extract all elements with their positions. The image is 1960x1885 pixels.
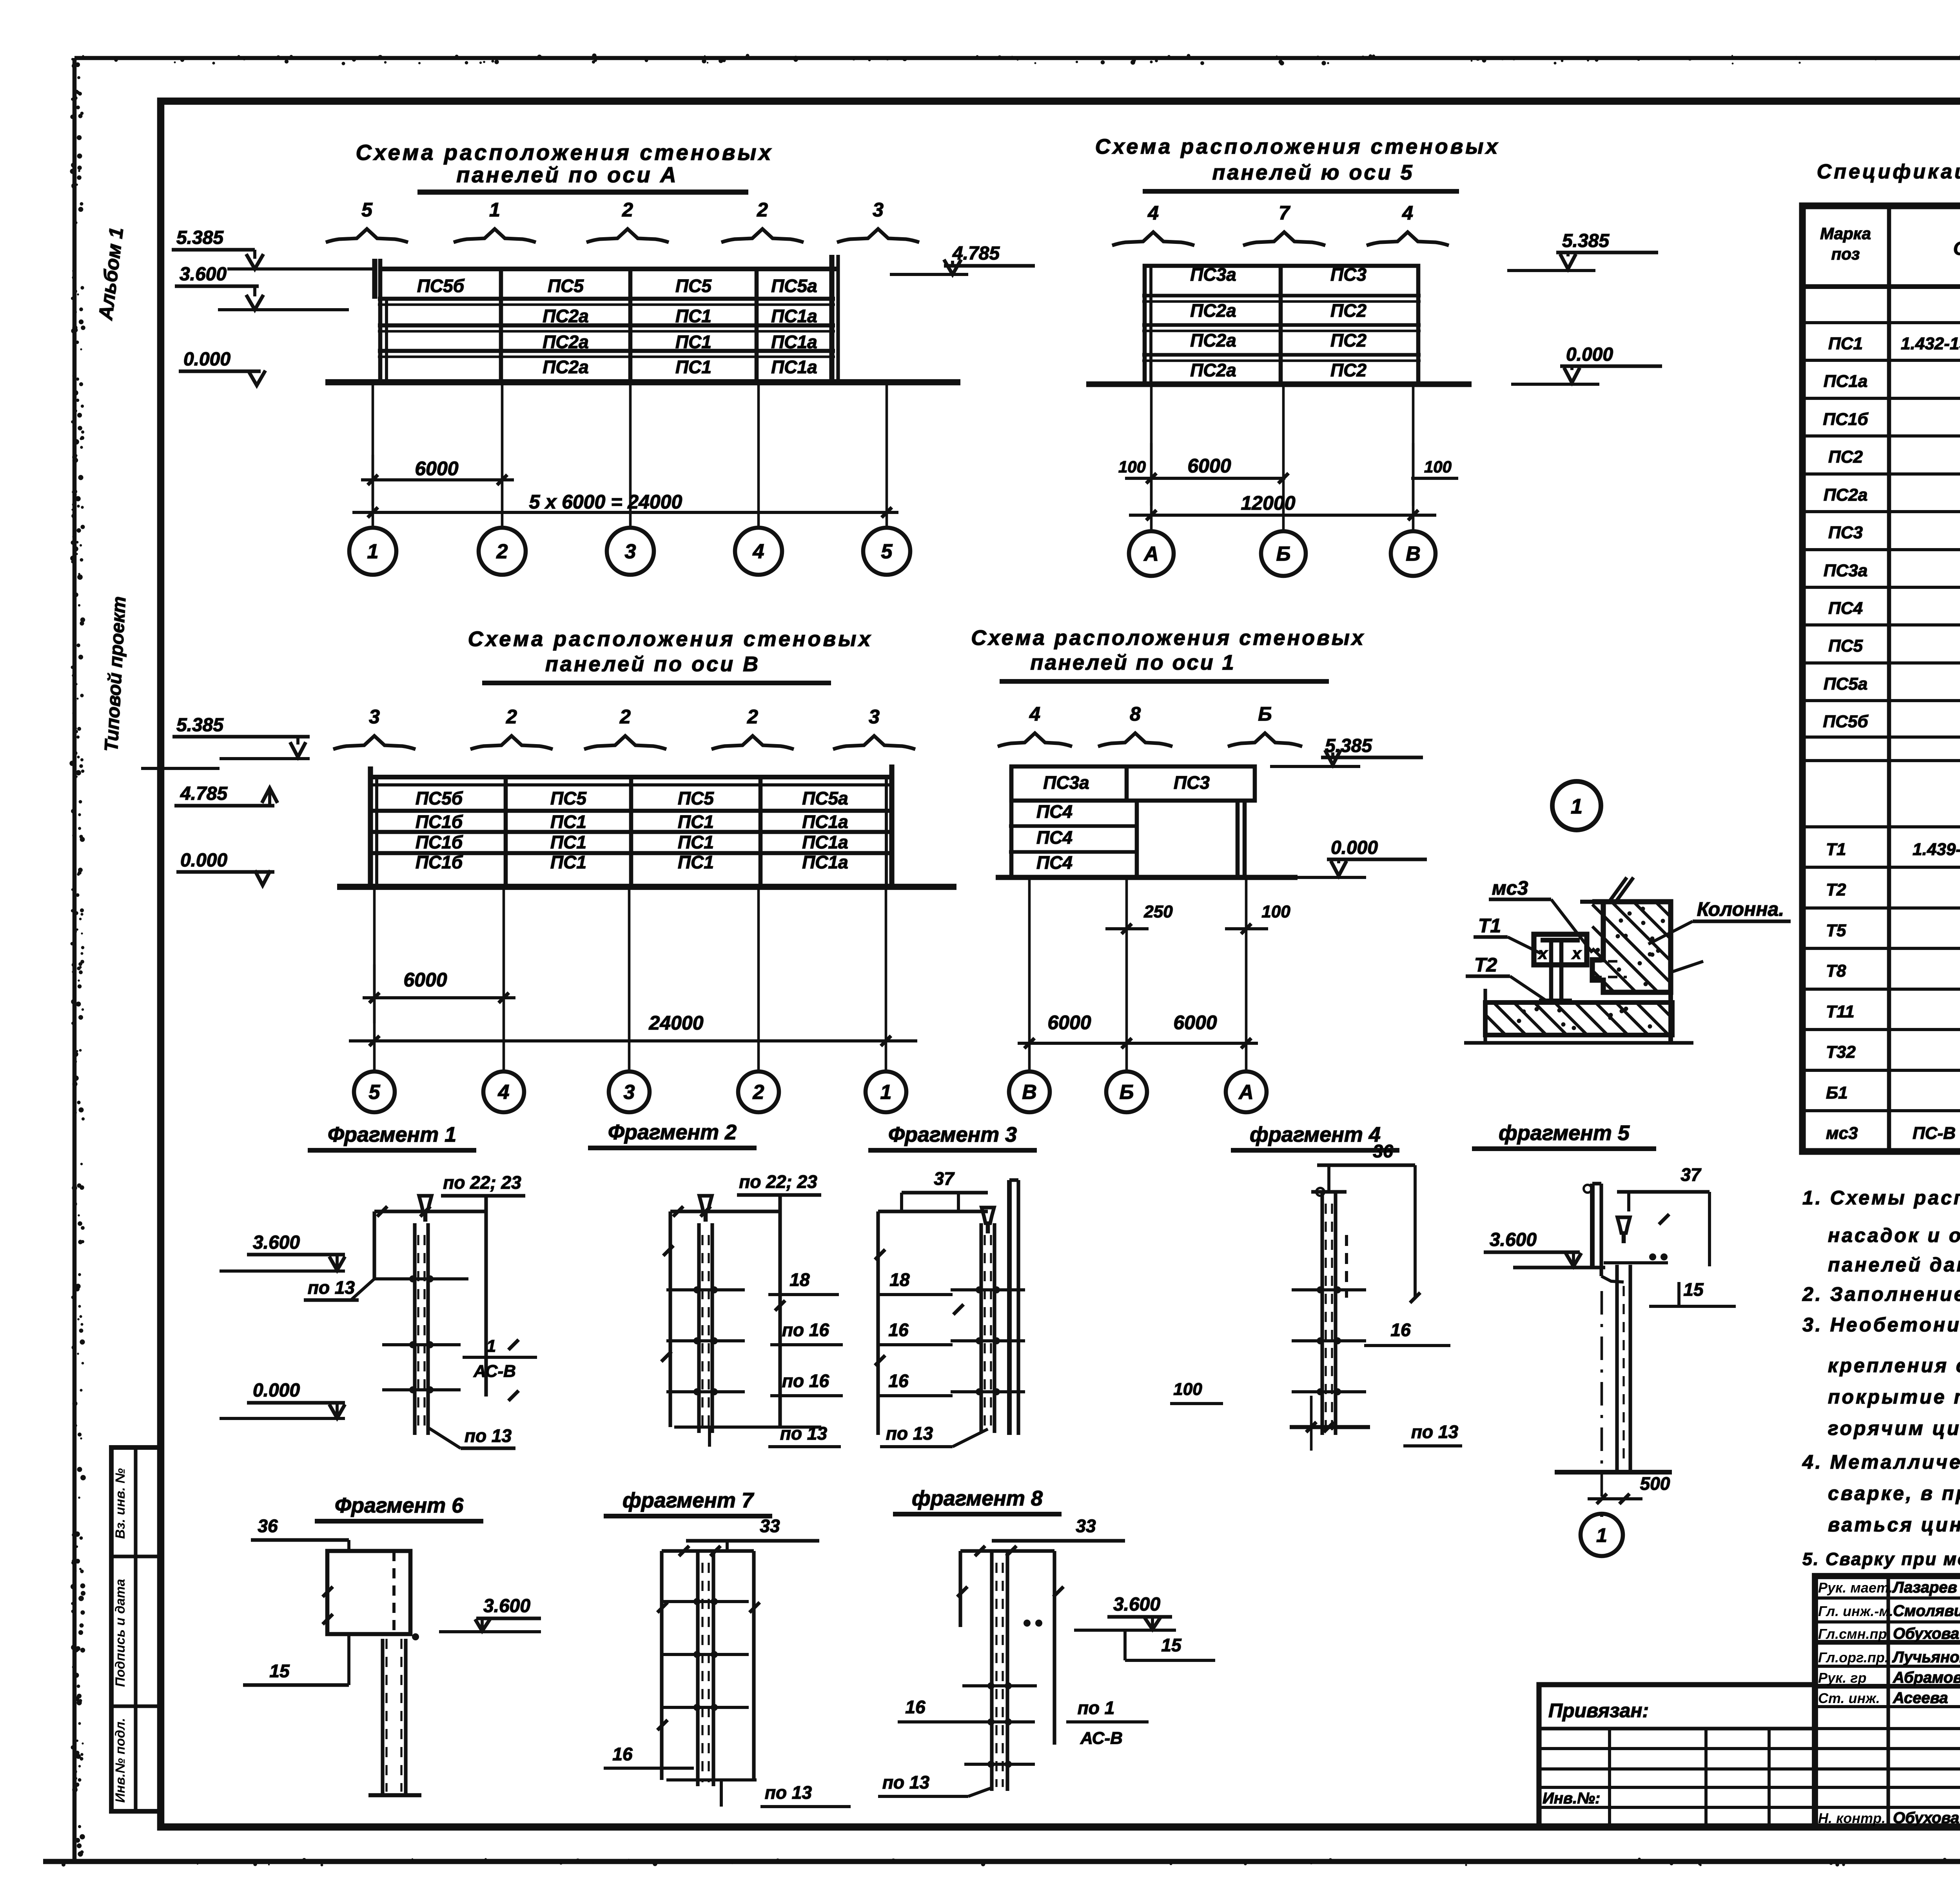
svg-text:фрагмент 4: фрагмент 4 (1250, 1123, 1381, 1146)
svg-text:Т1: Т1 (1826, 840, 1846, 859)
svg-text:18: 18 (889, 1269, 910, 1290)
svg-text:Т1: Т1 (1478, 915, 1501, 937)
svg-text:2: 2 (757, 199, 768, 221)
svg-text:Лучьянов: Лучьянов (1892, 1649, 1960, 1666)
svg-text:по 13: по 13 (886, 1423, 933, 1444)
svg-text:ПС1: ПС1 (550, 852, 586, 872)
svg-text:ПС2а: ПС2а (1190, 330, 1236, 350)
svg-text:по 13: по 13 (780, 1423, 828, 1444)
svg-text:ПС2а: ПС2а (543, 332, 588, 352)
svg-text:Т11: Т11 (1826, 1002, 1855, 1021)
svg-text:0.000: 0.000 (253, 1380, 300, 1401)
svg-text:3: 3 (369, 706, 380, 728)
svg-text:Рук. мает.: Рук. мает. (1818, 1580, 1893, 1596)
svg-text:ПС1а: ПС1а (802, 852, 848, 872)
svg-text:ПС3а: ПС3а (1190, 264, 1236, 285)
svg-text:2: 2 (506, 706, 517, 728)
svg-text:16: 16 (1390, 1320, 1411, 1340)
svg-text:3.600: 3.600 (180, 264, 227, 285)
svg-text:Инв.№ подл.: Инв.№ подл. (113, 1718, 128, 1803)
svg-text:3.600: 3.600 (1490, 1229, 1537, 1250)
svg-text:Б: Б (1276, 543, 1291, 565)
svg-text:250: 250 (1143, 902, 1173, 921)
svg-text:5.385: 5.385 (176, 227, 224, 248)
svg-text:33: 33 (1076, 1516, 1096, 1536)
svg-text:ПС5: ПС5 (678, 788, 714, 808)
svg-text:0.000: 0.000 (1331, 837, 1378, 858)
svg-text:ПС1а: ПС1а (771, 332, 817, 352)
svg-text:Схема расположения стеновых: Схема расположения стеновых (356, 140, 773, 165)
svg-text:6000: 6000 (1187, 455, 1231, 477)
svg-text:ПС1: ПС1 (678, 812, 714, 832)
svg-text:5 х 6000 = 24000: 5 х 6000 = 24000 (529, 491, 682, 513)
svg-text:В: В (1022, 1081, 1037, 1104)
svg-text:Схема расположения стеновых: Схема расположения стеновых (1095, 135, 1500, 158)
svg-text:по 1: по 1 (1078, 1698, 1115, 1718)
svg-text:1: 1 (1571, 795, 1583, 818)
svg-text:7: 7 (1279, 202, 1290, 224)
svg-text:Б: Б (1120, 1081, 1134, 1104)
svg-text:1. Схемы расположения стоек: 1. Схемы расположения стоек торцового фа… (1802, 1187, 1960, 1209)
svg-text:3: 3 (873, 199, 884, 221)
svg-text:1: 1 (880, 1081, 892, 1104)
svg-text:ПС1: ПС1 (675, 306, 711, 326)
svg-text:2: 2 (496, 540, 508, 563)
svg-text:сварке, в процессе монтажа: сварке, в процессе монтажа должны восста… (1828, 1482, 1960, 1504)
svg-text:2: 2 (622, 199, 633, 221)
svg-text:Смолявицкий: Смолявицкий (1893, 1602, 1960, 1620)
svg-text:ПС3а: ПС3а (1043, 772, 1089, 793)
svg-text:А: А (1238, 1081, 1254, 1104)
svg-text:6000: 6000 (415, 458, 458, 479)
svg-text:16: 16 (612, 1744, 633, 1764)
svg-text:АС-В: АС-В (1080, 1729, 1123, 1748)
svg-text:Вз. инв. №: Вз. инв. № (113, 1468, 128, 1539)
svg-text:Обухова: Обухова (1893, 1809, 1959, 1827)
svg-text:фрагмент 7: фрагмент 7 (622, 1489, 755, 1512)
svg-text:Марка: Марка (1820, 224, 1871, 243)
svg-text:16: 16 (888, 1320, 909, 1340)
svg-text:А: А (1143, 543, 1159, 565)
svg-text:мс3: мс3 (1826, 1124, 1858, 1143)
svg-text:500: 500 (1640, 1473, 1670, 1494)
svg-text:2: 2 (753, 1081, 764, 1104)
svg-text:4: 4 (1402, 202, 1413, 224)
svg-text:ПС2а: ПС2а (1190, 360, 1236, 380)
svg-text:Обухова: Обухова (1893, 1625, 1959, 1642)
svg-text:2: 2 (747, 706, 758, 728)
svg-text:24000: 24000 (648, 1012, 703, 1034)
svg-text:0.000: 0.000 (1566, 344, 1613, 365)
svg-text:ПС1: ПС1 (550, 832, 586, 852)
svg-text:ПС1а: ПС1а (771, 357, 817, 377)
svg-text:Т2: Т2 (1474, 954, 1497, 976)
svg-text:1: 1 (486, 1337, 496, 1356)
svg-text:33: 33 (760, 1516, 780, 1536)
svg-text:Привязан:: Привязан: (1548, 1700, 1649, 1722)
svg-text:3.600: 3.600 (483, 1596, 530, 1616)
svg-text:Т32: Т32 (1826, 1042, 1856, 1062)
svg-text:100: 100 (1118, 458, 1146, 476)
svg-text:4. Металлические покрытия ,: 4. Металлические покрытия , поврежденные… (1802, 1451, 1960, 1473)
svg-text:Подпись и дата: Подпись и дата (113, 1579, 128, 1687)
svg-text:3: 3 (869, 706, 880, 728)
svg-text:ПС1а: ПС1а (1824, 372, 1867, 391)
svg-text:Б: Б (1258, 703, 1272, 725)
svg-text:15: 15 (1161, 1635, 1182, 1655)
svg-text:панелей ю оси 5: панелей ю оси 5 (1212, 161, 1414, 184)
svg-text:Т2: Т2 (1826, 880, 1846, 899)
svg-text:Фрагмент 2: Фрагмент 2 (608, 1120, 737, 1144)
svg-text:1: 1 (489, 199, 500, 221)
svg-text:2: 2 (619, 706, 631, 728)
svg-text:покрытие толщиной б=60-100: покрытие толщиной б=60-100 мкм, получаем… (1828, 1386, 1960, 1408)
svg-text:1: 1 (1596, 1524, 1607, 1546)
svg-text:ПС5а: ПС5а (802, 788, 848, 808)
svg-text:Гл.орг.пр.: Гл.орг.пр. (1818, 1649, 1889, 1665)
svg-text:ПС4: ПС4 (1036, 827, 1073, 848)
svg-text:Асеева: Асеева (1893, 1689, 1948, 1707)
svg-text:по 22; 23: по 22; 23 (443, 1172, 521, 1193)
svg-text:4: 4 (1029, 703, 1040, 725)
svg-text:ПС5а: ПС5а (771, 276, 817, 296)
svg-text:ПС1: ПС1 (675, 357, 711, 377)
svg-text:ПС1б: ПС1б (416, 852, 463, 872)
svg-text:5.385: 5.385 (176, 715, 224, 735)
svg-text:4: 4 (1147, 202, 1159, 224)
svg-text:Лазарев: Лазарев (1892, 1579, 1957, 1596)
svg-text:0.000: 0.000 (180, 850, 227, 871)
svg-text:6000: 6000 (403, 969, 447, 991)
svg-text:ПС1: ПС1 (678, 832, 714, 852)
svg-text:ПС4: ПС4 (1036, 852, 1073, 873)
svg-text:ПС2: ПС2 (1828, 447, 1863, 467)
svg-text:1.439-7: 1.439-7 (1913, 840, 1960, 859)
svg-text:36: 36 (1373, 1141, 1393, 1161)
svg-text:насадок и опорных консолей: насадок и опорных консолей для крепления… (1828, 1224, 1960, 1246)
svg-text:ПС1: ПС1 (550, 812, 586, 832)
svg-text:0.000: 0.000 (183, 349, 230, 370)
svg-text:по 16: по 16 (782, 1371, 829, 1391)
svg-text:100: 100 (1424, 458, 1452, 476)
svg-text:Рук. гр: Рук. гр (1818, 1670, 1867, 1686)
svg-text:ПС2а: ПС2а (1190, 300, 1236, 321)
svg-text:фрагмент 8: фрагмент 8 (912, 1487, 1043, 1510)
svg-text:Схема расположения стеновых: Схема расположения стеновых (971, 626, 1365, 650)
svg-text:ПС5: ПС5 (548, 276, 584, 296)
svg-text:3. Необетонируемые закладные: 3. Необетонируемые закладные изделия, а … (1802, 1314, 1960, 1336)
svg-text:5: 5 (369, 1081, 381, 1104)
svg-text:36: 36 (258, 1516, 278, 1536)
svg-text:Ст. инж.: Ст. инж. (1818, 1690, 1880, 1706)
svg-text:5: 5 (881, 540, 893, 563)
svg-text:4: 4 (498, 1081, 510, 1104)
svg-text:ПС1: ПС1 (675, 332, 711, 352)
svg-text:ПС1б: ПС1б (1823, 410, 1869, 429)
svg-text:по 16: по 16 (782, 1320, 829, 1340)
svg-text:фрагмент 5: фрагмент 5 (1499, 1121, 1630, 1145)
svg-text:Т8: Т8 (1826, 961, 1846, 981)
svg-text:ПС2а: ПС2а (1824, 485, 1867, 505)
svg-text:ПС5а: ПС5а (1824, 674, 1867, 694)
svg-text:Обозначение: Обозначение (1953, 238, 1960, 259)
svg-text:5: 5 (361, 199, 373, 221)
svg-text:ПС2: ПС2 (1330, 360, 1367, 380)
svg-text:1: 1 (367, 540, 379, 563)
svg-text:ПС1а: ПС1а (771, 306, 817, 326)
svg-text:8: 8 (1130, 703, 1141, 725)
svg-text:ПС5: ПС5 (550, 788, 587, 808)
svg-text:Гл.смн.пр: Гл.смн.пр (1818, 1626, 1887, 1642)
svg-text:Схема расположения стеновых: Схема расположения стеновых (468, 627, 873, 651)
svg-text:ПС2а: ПС2а (543, 306, 588, 326)
svg-text:15: 15 (269, 1661, 290, 1681)
svg-text:ПС1: ПС1 (1828, 334, 1863, 353)
svg-text:18: 18 (789, 1269, 810, 1290)
svg-text:Фрагмент 3: Фрагмент 3 (888, 1123, 1017, 1146)
svg-text:3: 3 (624, 1081, 635, 1104)
svg-text:4: 4 (753, 540, 764, 563)
svg-text:ПС4: ПС4 (1828, 599, 1863, 618)
svg-text:по 22; 23: по 22; 23 (739, 1171, 817, 1192)
svg-text:3.600: 3.600 (253, 1232, 300, 1253)
svg-text:Гл. инж.-м.: Гл. инж.-м. (1818, 1603, 1893, 1619)
svg-text:Т5: Т5 (1826, 921, 1846, 940)
svg-text:16: 16 (905, 1697, 926, 1717)
svg-text:1.432-15 Вып. 0;1: 1.432-15 Вып. 0;1 (1901, 334, 1960, 353)
svg-text:ПС2а: ПС2а (543, 357, 588, 377)
svg-text:ПС3: ПС3 (1174, 772, 1210, 793)
svg-text:ПС5б: ПС5б (417, 276, 465, 296)
svg-text:ПС3: ПС3 (1828, 523, 1863, 542)
svg-text:Спецификация к схемам расп: Спецификация к схемам расположения стено… (1817, 160, 1960, 183)
svg-text:горячим цинкованием.: горячим цинкованием. (1828, 1417, 1960, 1439)
svg-text:37: 37 (934, 1168, 955, 1189)
svg-text:Б1: Б1 (1826, 1083, 1848, 1102)
svg-text:ПС2: ПС2 (1330, 330, 1367, 350)
svg-text:панелей по оси А: панелей по оси А (456, 162, 678, 187)
svg-text:ПС3: ПС3 (1330, 264, 1367, 285)
svg-text:5.385: 5.385 (1562, 231, 1610, 251)
svg-text:2. Заполнение швов между п: 2. Заполнение швов между панелями см. се… (1802, 1283, 1960, 1305)
svg-text:по 13: по 13 (1411, 1422, 1459, 1442)
svg-text:Н. контр.: Н. контр. (1818, 1810, 1886, 1826)
svg-text:ПС5: ПС5 (1828, 636, 1863, 656)
svg-text:ПС2: ПС2 (1330, 300, 1367, 321)
svg-text:6000: 6000 (1173, 1012, 1217, 1033)
svg-text:ПС1б: ПС1б (416, 832, 463, 852)
svg-text:ПС4: ПС4 (1036, 801, 1073, 822)
svg-text:х: х (1571, 944, 1582, 962)
svg-text:5. Сварку при монтажа прово: 5. Сварку при монтажа проводить электрод… (1802, 1549, 1960, 1569)
svg-text:Инв.№:: Инв.№: (1543, 1790, 1600, 1807)
svg-text:Колонна.: Колонна. (1697, 898, 1784, 920)
svg-text:ПС3а: ПС3а (1824, 561, 1867, 580)
svg-text:ПС1: ПС1 (678, 852, 714, 872)
svg-text:12000: 12000 (1241, 492, 1295, 514)
svg-text:ПС1а: ПС1а (802, 812, 848, 832)
svg-text:100: 100 (1173, 1380, 1202, 1399)
svg-text:ПС1а: ПС1а (802, 832, 848, 852)
svg-text:В: В (1406, 543, 1421, 565)
svg-text:по 13: по 13 (765, 1782, 812, 1803)
svg-text:мс3: мс3 (1492, 877, 1528, 899)
svg-text:3: 3 (625, 540, 636, 563)
svg-text:по 13: по 13 (308, 1277, 355, 1298)
svg-text:ПС5б: ПС5б (1823, 712, 1869, 731)
svg-text:по 13: по 13 (882, 1772, 930, 1792)
svg-text:6000: 6000 (1047, 1012, 1091, 1033)
svg-text:ПС5: ПС5 (675, 276, 712, 296)
svg-text:панелей даны на листе АС-7: панелей даны на листе АС-7. (1828, 1254, 1960, 1276)
svg-text:ваться цинкованием.: ваться цинкованием. (1828, 1514, 1960, 1536)
svg-text:ПС-В: ПС-В (1913, 1124, 1956, 1143)
svg-text:ПС5б: ПС5б (416, 788, 463, 808)
svg-text:Абрамов: Абрамов (1893, 1669, 1960, 1686)
svg-text:100: 100 (1261, 902, 1290, 921)
svg-text:панелей по оси 1: панелей по оси 1 (1030, 651, 1235, 674)
svg-text:панелей по оси В: панелей по оси В (545, 652, 760, 676)
svg-text:ПС1б: ПС1б (416, 812, 463, 832)
svg-text:16: 16 (888, 1371, 909, 1391)
svg-text:37: 37 (1681, 1164, 1702, 1185)
svg-text:поз: поз (1831, 245, 1860, 263)
svg-text:15: 15 (1683, 1279, 1704, 1300)
svg-text:Фрагмент 6: Фрагмент 6 (335, 1494, 464, 1517)
svg-text:3.600: 3.600 (1113, 1594, 1160, 1615)
svg-text:АС-В: АС-В (473, 1362, 516, 1381)
svg-text:Фрагмент 1: Фрагмент 1 (328, 1123, 456, 1146)
svg-text:по 13: по 13 (465, 1426, 512, 1446)
svg-text:4.785: 4.785 (180, 783, 228, 804)
svg-text:крепления стеновых панелей д: крепления стеновых панелей должны иметь … (1828, 1355, 1960, 1377)
